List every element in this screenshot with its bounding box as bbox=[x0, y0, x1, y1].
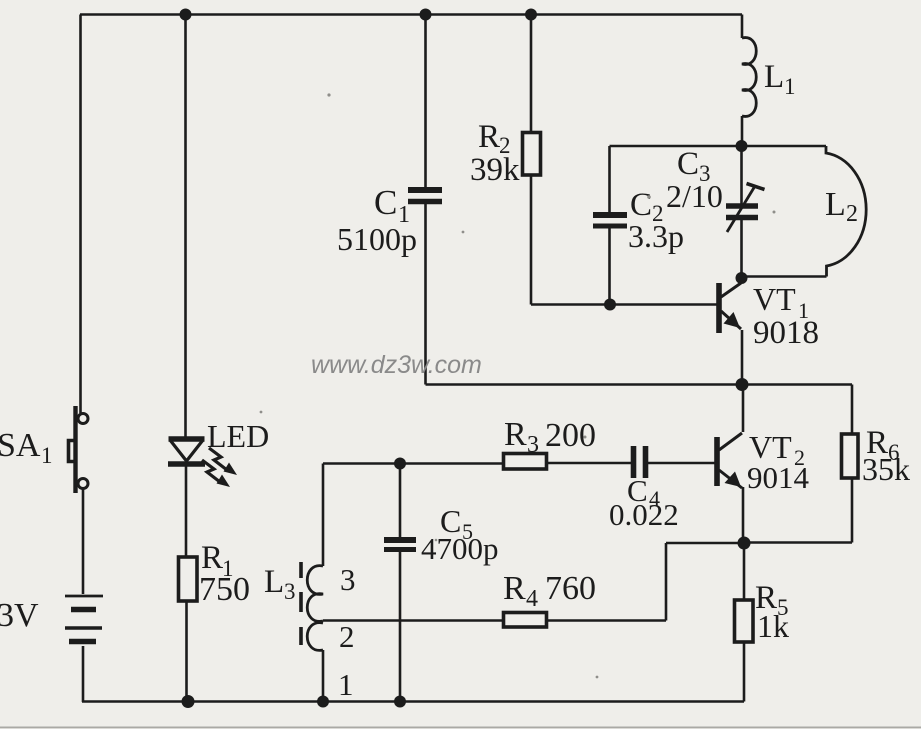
label L1 bbox=[764, 59, 796, 99]
label R4 760 bbox=[503, 570, 596, 612]
label C4 0.022 bbox=[609, 473, 679, 532]
wire tank left upper bbox=[608, 146, 611, 212]
label C1 5100p bbox=[337, 183, 417, 257]
node C5 top junction bbox=[394, 458, 406, 470]
wire C3 upper lead bbox=[740, 146, 743, 204]
label C5 4700p bbox=[421, 503, 499, 566]
resistor R3 bbox=[504, 454, 547, 470]
wire C4-to-VT2-base bbox=[648, 462, 715, 465]
wire R2 lower drop bbox=[530, 174, 533, 305]
svg-text:2: 2 bbox=[339, 619, 355, 654]
label L3 bbox=[264, 564, 296, 604]
trimmer capacitor C3 bbox=[726, 184, 765, 233]
svg-text:1: 1 bbox=[784, 74, 796, 99]
scan bottom edge line bbox=[0, 727, 921, 729]
wire step vertical bbox=[665, 543, 668, 621]
node bottom C5 junction bbox=[394, 696, 406, 708]
capacitor C5 bbox=[384, 540, 416, 550]
svg-text:R: R bbox=[478, 119, 500, 155]
svg-text:1: 1 bbox=[338, 667, 354, 702]
node C2 bottom junction bbox=[604, 299, 616, 311]
label L2 bbox=[825, 186, 858, 227]
svg-text:L: L bbox=[764, 59, 784, 95]
label R2 39k bbox=[470, 119, 520, 188]
wire LED-to-R1 bbox=[185, 465, 188, 557]
wire tank top bbox=[610, 145, 827, 148]
svg-text:750: 750 bbox=[199, 571, 250, 608]
label R6 35k bbox=[862, 425, 910, 487]
svg-text:35k: 35k bbox=[862, 451, 910, 487]
wire L2 bottom return bbox=[742, 275, 827, 278]
transformer L3 bbox=[301, 562, 323, 650]
svg-text:3: 3 bbox=[340, 562, 356, 597]
svg-text:200: 200 bbox=[545, 417, 596, 454]
wire base row L3-to-R3 bbox=[323, 462, 504, 465]
node tank top junction bbox=[736, 140, 748, 152]
node VT1 collector junction bbox=[736, 272, 748, 284]
label C2 3.3p bbox=[628, 187, 684, 254]
inductor L1 bbox=[742, 38, 756, 117]
svg-text:0.022: 0.022 bbox=[609, 497, 679, 532]
wire left rail switch-to-battery bbox=[82, 489, 85, 594]
resistor R4 bbox=[504, 613, 547, 628]
svg-text:2/10: 2/10 bbox=[666, 178, 723, 214]
label VT2 9014 bbox=[747, 429, 810, 495]
label R1 750 bbox=[199, 540, 250, 608]
resistor R1 bbox=[179, 557, 198, 601]
battery 3V bbox=[65, 596, 103, 642]
svg-text:9018: 9018 bbox=[753, 315, 819, 351]
LED flash arrows bbox=[202, 448, 237, 487]
node bottom R1 junction bbox=[182, 695, 195, 708]
svg-text:VT: VT bbox=[753, 281, 796, 317]
svg-text:R: R bbox=[504, 416, 527, 453]
capacitor C2 bbox=[593, 215, 627, 226]
node top R2 junction bbox=[525, 9, 537, 21]
wire VT2 emitter drop bbox=[742, 487, 745, 543]
wire C5 lower lead bbox=[399, 552, 402, 702]
wire R5 upper lead bbox=[743, 543, 746, 600]
capacitor C4 bbox=[634, 446, 646, 478]
scan speckles bbox=[260, 93, 776, 678]
svg-text:2: 2 bbox=[846, 201, 858, 227]
transistor VT2 bbox=[717, 433, 742, 488]
svg-text:www.dz3w.com: www.dz3w.com bbox=[311, 351, 482, 379]
wire L3 bottom lead bbox=[322, 650, 325, 702]
wire R5 lower lead bbox=[743, 642, 746, 702]
wire top-right corner to L1 bbox=[741, 15, 744, 39]
svg-text:4: 4 bbox=[526, 586, 538, 612]
label SA1 bbox=[0, 427, 53, 468]
svg-text:3: 3 bbox=[284, 579, 296, 604]
wire battery-to-bottom bbox=[82, 646, 85, 702]
wire R6 upper lead bbox=[851, 385, 854, 435]
wire LED branch upper bbox=[184, 15, 187, 438]
node emitter bus junction bbox=[736, 378, 749, 391]
label C3 2/10 bbox=[666, 146, 723, 214]
svg-text:3V: 3V bbox=[0, 597, 39, 634]
wire emitter bus bbox=[426, 383, 853, 386]
wire R6-to-emitter-node bbox=[744, 541, 852, 544]
wire bottom rail bbox=[82, 700, 744, 703]
svg-text:4700p: 4700p bbox=[421, 531, 499, 566]
svg-text:L: L bbox=[264, 564, 284, 600]
svg-text:L: L bbox=[825, 186, 846, 223]
resistor R6 bbox=[842, 434, 859, 478]
wire step-to-emitter-node bbox=[666, 542, 744, 545]
svg-text:5100p: 5100p bbox=[337, 221, 417, 257]
wire R1-to-bottom bbox=[185, 601, 188, 702]
resistor R5 bbox=[735, 600, 754, 642]
svg-text:1: 1 bbox=[41, 443, 53, 468]
svg-text:C: C bbox=[677, 146, 699, 182]
wire C1 lower drop bbox=[424, 204, 427, 385]
svg-text:3: 3 bbox=[527, 432, 539, 458]
label VT1 9018 bbox=[753, 281, 819, 351]
wire R6 lower lead bbox=[851, 478, 854, 543]
svg-text:LED: LED bbox=[207, 418, 269, 454]
LED D1 bbox=[168, 439, 205, 464]
wire C3 lower lead bbox=[740, 220, 743, 279]
node top LED junction bbox=[180, 9, 192, 21]
node top C1 junction bbox=[420, 9, 432, 21]
wire top rail bbox=[80, 13, 742, 16]
wire R4-to-step bbox=[547, 619, 667, 622]
wire C1 branch upper bbox=[424, 15, 427, 188]
svg-text:R: R bbox=[503, 570, 526, 607]
wire tank left lower bbox=[608, 228, 611, 305]
svg-text:9014: 9014 bbox=[747, 460, 810, 495]
capacitor C1 bbox=[408, 190, 442, 202]
svg-text:760: 760 bbox=[545, 570, 596, 607]
wire L3 tap2 row bbox=[323, 619, 504, 622]
wire R3-to-C4 bbox=[547, 462, 632, 465]
resistor R2 bbox=[523, 133, 541, 176]
svg-text:3.3p: 3.3p bbox=[628, 218, 684, 254]
node VT2 emitter junction bbox=[738, 537, 751, 550]
wire C5 upper lead bbox=[399, 464, 402, 538]
wire R2 branch upper bbox=[530, 15, 533, 134]
wire VT2 collector drop bbox=[742, 385, 745, 433]
label R3 200 bbox=[504, 416, 596, 458]
transistor VT1 bbox=[719, 283, 741, 333]
svg-text:39k: 39k bbox=[470, 152, 520, 188]
wire L3 top lead bbox=[322, 464, 325, 567]
label R5 1k bbox=[755, 580, 789, 644]
wire VT1 emitter drop bbox=[741, 330, 744, 385]
svg-text:SA: SA bbox=[0, 427, 41, 464]
node bottom L3 junction bbox=[317, 696, 329, 708]
switch SA1 bbox=[69, 406, 89, 493]
svg-text:C: C bbox=[374, 183, 397, 222]
wire L1-to-tank junction bbox=[741, 116, 744, 146]
svg-text:1k: 1k bbox=[757, 608, 789, 644]
wire left rail upper bbox=[79, 15, 82, 414]
inductor L2 loop antenna bbox=[826, 146, 866, 277]
wire VT1 base bbox=[531, 303, 717, 306]
